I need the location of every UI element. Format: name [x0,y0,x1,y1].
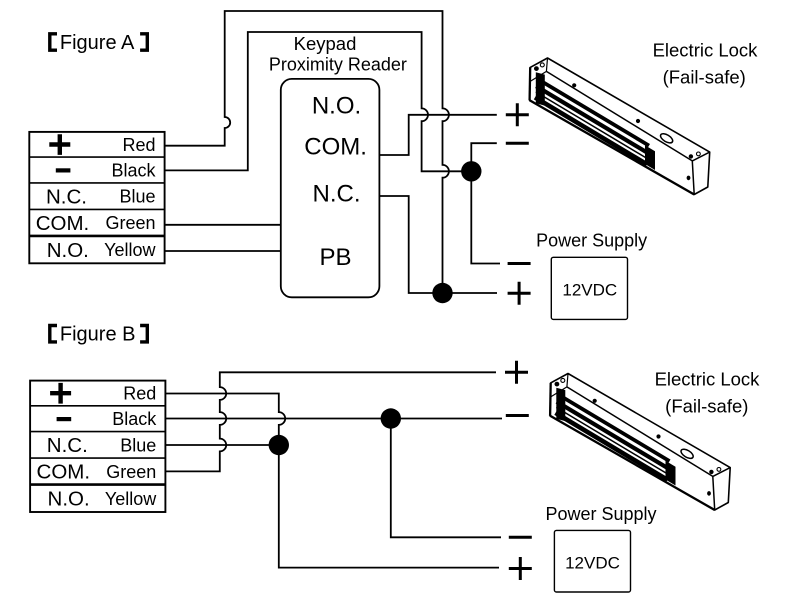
svg-text:12VDC: 12VDC [565,554,620,573]
power supply minus symbol B [509,536,532,539]
wire keypad COM to lock plus [379,115,496,155]
wire green COM B: up to lock plus [165,372,496,471]
wire red B: to junction on N.C. wire [165,394,285,446]
junction dot A2 [432,283,452,303]
wire table N.O. yellow to keypad [165,250,281,252]
svg-text:(Fail-safe): (Fail-safe) [665,395,748,416]
junction dot A1 [461,161,481,181]
power supply plus symbol B [509,557,532,580]
svg-text:(Fail-safe): (Fail-safe) [663,67,746,88]
svg-text:Keypad: Keypad [294,33,357,54]
svg-text:Power Supply: Power Supply [536,230,647,250]
wire lock minus to power supply minus [471,143,500,263]
lock minus terminal symbol A [506,142,529,145]
wire table COM green to keypad [165,224,281,226]
wire junction B2 to power supply minus [391,419,501,538]
svg-text:N.C.: N.C. [313,180,361,207]
svg-text:Electric Lock: Electric Lock [655,368,761,389]
lock plus terminal symbol B [505,361,528,384]
power supply minus symbol A [508,262,531,265]
svg-text:Figure B: Figure B [60,324,136,346]
junction dot B2 [381,408,401,428]
svg-text:Electric Lock: Electric Lock [653,40,759,61]
Figure B label brackets [50,326,148,342]
svg-text:PB: PB [319,244,351,271]
electric lock (Figure A) [530,58,710,195]
power supply box B [554,530,630,592]
svg-text:N.O.: N.O. [312,92,361,119]
svg-text:COM.: COM. [304,133,367,160]
power supply box A [551,257,627,319]
wire blue N.C. B: to junction [165,444,278,446]
wire keypad N.C. to power supply plus [379,196,497,293]
wire black: table minus row to junction wire [165,32,472,171]
svg-text:12VDC: 12VDC [562,281,617,300]
Figure A label brackets [50,34,148,50]
svg-text:Power Supply: Power Supply [545,504,656,524]
lock plus terminal symbol A [506,103,529,126]
lock wire table (Figure A) [29,132,164,263]
lock minus terminal symbol B [506,414,529,417]
svg-text:Proximity Reader: Proximity Reader [269,55,407,75]
wire red: table + row to top loop to junction at power supply plus [165,11,449,293]
wire junction B1 to power supply plus [279,445,499,568]
svg-text:Figure A: Figure A [60,32,135,54]
electric lock (Figure B) [550,374,730,511]
keypad box U1 [281,79,380,297]
junction dot B1 [269,435,289,455]
wire black B: to lock minus [165,418,502,420]
power supply plus symbol A [508,282,531,305]
lock wire table (Figure B) [30,381,165,512]
